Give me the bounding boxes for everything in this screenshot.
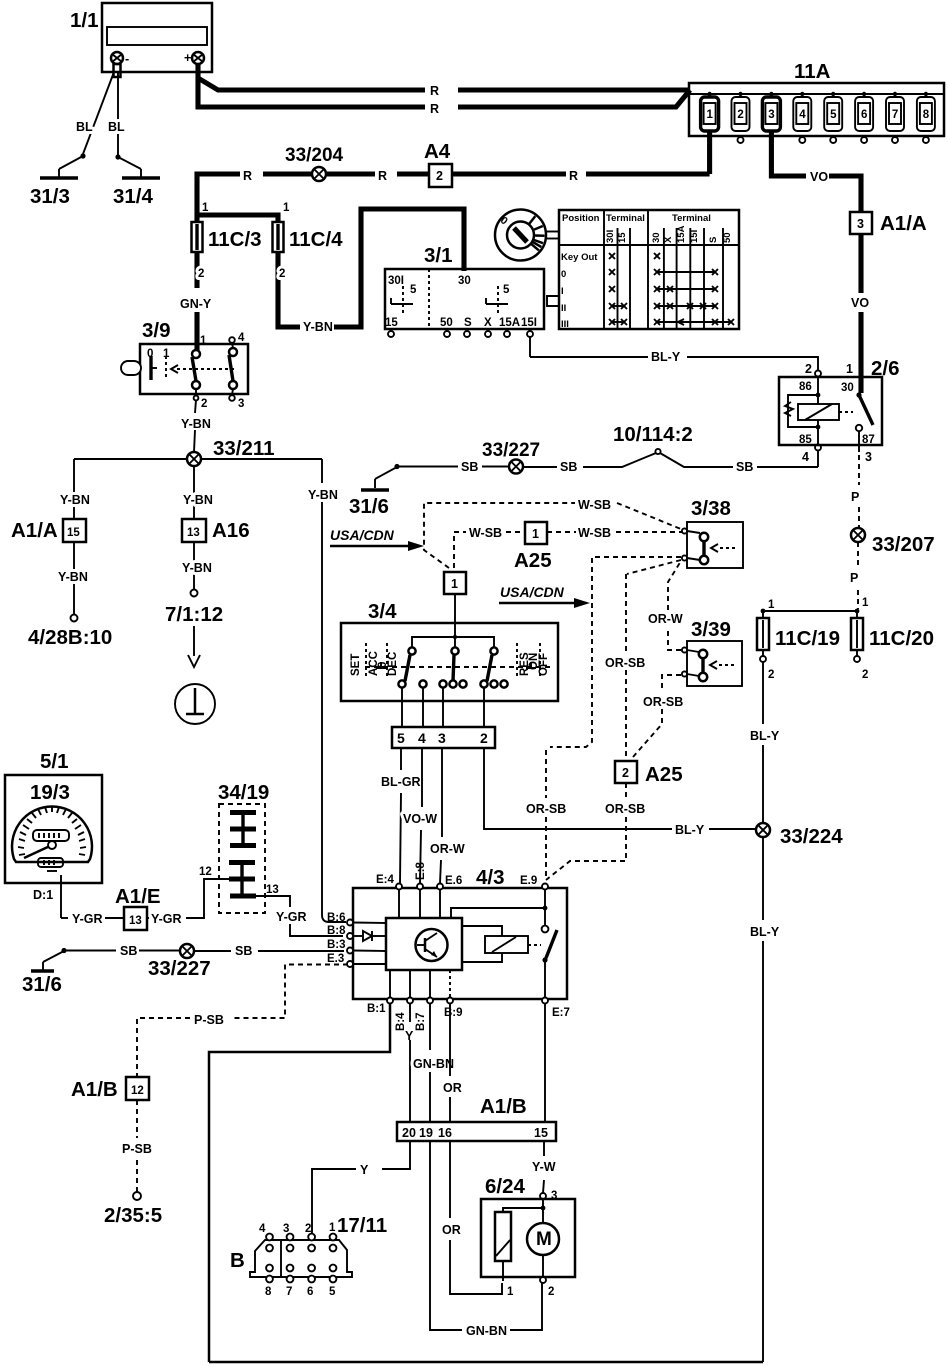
svg-text:33/227: 33/227	[148, 957, 211, 980]
switch 3/38	[682, 497, 743, 568]
wire W-SB dashed row via A25	[454, 526, 525, 568]
pin E:7	[542, 998, 570, 1020]
svg-text:1: 1	[707, 109, 714, 121]
svg-text:3/38: 3/38	[691, 497, 731, 520]
svg-text:31/4: 31/4	[113, 185, 153, 208]
wire BL-Y pin2 to splice 33/224	[484, 748, 756, 837]
svg-text:P-SB: P-SB	[194, 1013, 224, 1027]
wire Y-BN to 7/1:12	[165, 542, 223, 626]
svg-text:3/39: 3/39	[691, 618, 731, 641]
battery 1/1	[70, 3, 212, 72]
svg-text:31/6: 31/6	[22, 973, 62, 996]
svg-text:W-SB: W-SB	[578, 526, 611, 540]
svg-text:OR-SB: OR-SB	[605, 656, 645, 670]
svg-text:Y-BN: Y-BN	[181, 417, 211, 431]
fuse 4	[793, 92, 811, 143]
fuse 2	[732, 92, 750, 143]
svg-text:15: 15	[534, 1126, 548, 1140]
svg-text:BL-Y: BL-Y	[750, 925, 780, 939]
svg-text:5: 5	[410, 284, 417, 296]
svg-text:Y-BN: Y-BN	[60, 493, 90, 507]
svg-text:VO-W: VO-W	[403, 812, 437, 826]
svg-text:2: 2	[768, 669, 774, 681]
control unit 4/3	[353, 866, 567, 999]
svg-text:I: I	[561, 286, 564, 297]
connector A16 pin 13	[182, 519, 250, 542]
wire dashed OR-SB 3/39 lower to A25 2	[633, 675, 683, 757]
svg-text:2: 2	[201, 398, 207, 410]
fuse box 11A	[689, 60, 944, 136]
switch 3/39	[682, 618, 742, 686]
svg-text:4: 4	[802, 450, 809, 464]
svg-text:B:6: B:6	[327, 912, 346, 924]
wire P dashed splice to 11C/20	[850, 542, 858, 609]
fuse 7	[886, 92, 904, 143]
svg-text:4/3: 4/3	[476, 866, 505, 889]
label USA/CDN arrow 2	[499, 584, 590, 608]
svg-text:3/4: 3/4	[368, 600, 397, 623]
ignition position table	[559, 210, 739, 330]
clock ground symbol below 7/1:12	[175, 626, 215, 724]
pin D:1	[33, 875, 61, 918]
svg-text:Y-BN: Y-BN	[303, 320, 333, 334]
bottom rail wire	[209, 1361, 763, 1364]
wire VO A1/A to relay 30	[851, 234, 869, 393]
wire P-SB dashed to 2/35:5	[104, 1100, 162, 1227]
splice 33/224	[756, 823, 843, 848]
svg-text:86: 86	[799, 381, 812, 393]
svg-text:2: 2	[548, 1286, 554, 1298]
svg-text:Y-GR: Y-GR	[151, 912, 182, 926]
label USA/CDN arrow 1	[330, 527, 424, 551]
svg-text:6/24: 6/24	[485, 1175, 525, 1198]
svg-text:1: 1	[202, 202, 209, 214]
connector A1/A pin 15	[11, 519, 86, 542]
pin B:4	[395, 998, 413, 1032]
svg-text:15: 15	[385, 317, 398, 329]
pin E:9	[520, 875, 548, 890]
wire GN-BN B:7 to A1/B 19	[413, 1003, 454, 1122]
svg-text:15: 15	[617, 232, 628, 243]
svg-text:OR-SB: OR-SB	[526, 802, 566, 816]
svg-text:7/1:12: 7/1:12	[165, 603, 223, 626]
connector 5 4 3 2 below 3/4	[392, 688, 495, 748]
svg-text:13: 13	[266, 884, 279, 896]
svg-text:11C/3: 11C/3	[208, 228, 262, 251]
svg-text:4: 4	[238, 332, 245, 344]
svg-text:12: 12	[199, 866, 212, 878]
svg-text:SB: SB	[235, 944, 252, 958]
servo motor 6/24	[481, 1175, 575, 1298]
svg-text:R: R	[569, 169, 578, 183]
svg-text:1: 1	[862, 597, 869, 609]
svg-text:33/207: 33/207	[872, 533, 935, 556]
wire VO fuse 3 to A1/A	[771, 131, 861, 212]
svg-text:A1/E: A1/E	[115, 885, 161, 908]
wire W-SB dashed A25 to 3/38	[547, 526, 682, 540]
svg-text:2: 2	[279, 268, 285, 280]
svg-text:VO: VO	[851, 296, 869, 310]
svg-text:8: 8	[923, 109, 930, 121]
ignition switch 3/1	[385, 244, 544, 337]
svg-text:6: 6	[307, 1286, 313, 1298]
svg-text:87: 87	[862, 434, 875, 446]
svg-text:E.9: E.9	[520, 875, 537, 887]
svg-text:34/19: 34/19	[218, 781, 269, 804]
svg-text:USA/CDN: USA/CDN	[330, 527, 395, 543]
svg-text:Y-BN: Y-BN	[182, 561, 212, 575]
svg-text:30: 30	[458, 275, 471, 287]
svg-text:2: 2	[198, 268, 204, 280]
ground 31/3	[30, 156, 83, 208]
wire branch to 11C/4	[197, 212, 281, 222]
ground 31/6 upper	[349, 467, 397, 518]
fuse 3	[762, 92, 780, 131]
svg-text:4: 4	[799, 109, 806, 121]
svg-text:11A: 11A	[794, 60, 831, 83]
wire dashed 3/38 lower to E:9 via left run	[526, 557, 681, 878]
svg-text:E:8: E:8	[415, 862, 427, 881]
fuse 1	[701, 92, 719, 131]
svg-text:W-SB: W-SB	[578, 498, 611, 512]
svg-text:SB: SB	[120, 944, 137, 958]
wire dashed 3/38 lower to A25 2	[605, 560, 681, 758]
svg-text:Y-GR: Y-GR	[276, 910, 307, 924]
4/3 internals	[353, 889, 557, 999]
splice 33/211	[187, 437, 275, 466]
svg-text:1: 1	[846, 362, 853, 376]
svg-text:Terminal: Terminal	[672, 213, 711, 224]
svg-text:5: 5	[830, 109, 837, 121]
svg-text:A1/B: A1/B	[71, 1078, 118, 1101]
pin B:1	[367, 998, 393, 1016]
wire Y A1/B 20 to 17/11 pin 2	[312, 1141, 410, 1233]
svg-text:30I: 30I	[605, 230, 616, 243]
svg-text:SB: SB	[736, 460, 753, 474]
wire dashed OR-W 3/39 upper to 3/38 lower	[648, 561, 683, 650]
wire P-SB dashed A1/B 12 to E:3	[137, 965, 348, 1078]
connector A1/E pin 13	[115, 885, 161, 930]
svg-text:1: 1	[768, 599, 775, 611]
svg-text:50: 50	[440, 317, 453, 329]
svg-text:OR-SB: OR-SB	[605, 802, 645, 816]
svg-text:7: 7	[286, 1286, 292, 1298]
ignition key symbol	[495, 210, 559, 261]
pin E:8	[415, 862, 427, 890]
ignition table stub	[547, 296, 559, 306]
svg-text:VO: VO	[810, 170, 828, 184]
svg-text:Y-GR: Y-GR	[72, 912, 103, 926]
fuse 11C/3	[192, 202, 262, 252]
svg-text:Y-W: Y-W	[532, 1160, 556, 1174]
svg-text:1: 1	[532, 527, 539, 541]
svg-text:OR-W: OR-W	[430, 842, 465, 856]
svg-text:2: 2	[436, 169, 443, 183]
wire Y-W A1/B 15 to servo pin 3	[532, 1141, 557, 1202]
splice 33/227 lower	[148, 944, 211, 980]
svg-text:Y-BN: Y-BN	[308, 488, 338, 502]
svg-text:15: 15	[67, 527, 80, 539]
svg-text:Position: Position	[562, 213, 600, 224]
svg-text:3: 3	[857, 217, 864, 231]
svg-text:1/1: 1/1	[70, 9, 99, 32]
svg-text:R: R	[243, 169, 252, 183]
wire R from fuse 1	[452, 131, 710, 183]
svg-text:4: 4	[418, 730, 426, 746]
wire BL-Y ignition 15I to relay	[530, 337, 818, 370]
svg-text:B: B	[230, 1249, 245, 1272]
wire Y-BN right branch down to B:6	[308, 459, 346, 922]
svg-text:B:9: B:9	[444, 1007, 463, 1019]
svg-text:1: 1	[451, 577, 458, 591]
svg-text:33/224: 33/224	[780, 825, 843, 848]
wire Y-BN distribution line	[74, 458, 322, 460]
wire OR B:9 to A1/B 16	[443, 1003, 462, 1122]
wire Y-W E:7 to A1/B 15	[544, 1003, 546, 1122]
wire SB splice to B:3	[194, 944, 344, 958]
wire VO-W pin4 to E:8	[403, 748, 437, 883]
svg-text:Y-BN: Y-BN	[183, 493, 213, 507]
svg-text:DEC: DEC	[387, 652, 399, 676]
wire SB splice to ground 31/6	[394, 460, 509, 474]
wire BL negative leads	[76, 72, 125, 160]
svg-text:R: R	[430, 102, 439, 116]
wire W-SB dashed upper row	[424, 498, 681, 568]
battery negative terminal	[111, 52, 129, 77]
svg-text:12: 12	[131, 1085, 144, 1097]
svg-text:S: S	[708, 237, 719, 243]
wire P dashed relay 87 to fuses	[851, 455, 859, 527]
svg-text:A1/B: A1/B	[480, 1095, 527, 1118]
svg-text:13: 13	[129, 915, 142, 927]
svg-text:A25: A25	[645, 763, 683, 786]
svg-text:3/1: 3/1	[424, 244, 453, 267]
svg-text:A4: A4	[424, 140, 451, 163]
svg-text:19: 19	[419, 1126, 433, 1140]
fuse 11C/20	[851, 611, 934, 681]
svg-text:E.3: E.3	[327, 953, 344, 965]
svg-text:SB: SB	[461, 460, 478, 474]
wire BL-GR pin5 to E:4	[381, 748, 421, 883]
wire BL-Y 11C/19 down right side	[750, 662, 780, 1362]
svg-text:GN-Y: GN-Y	[180, 297, 212, 311]
svg-text:BL-GR: BL-GR	[381, 775, 421, 789]
connector A1/A pin 3	[850, 212, 927, 235]
ground 31/4	[113, 157, 160, 208]
wire Y-GR 34/19 pin 13 to B:8	[256, 884, 343, 936]
svg-text:P: P	[851, 490, 859, 504]
svg-text:15A: 15A	[499, 317, 520, 329]
wire Y-BN to A1/A 15	[60, 459, 90, 519]
svg-text:3: 3	[865, 450, 872, 464]
svg-text:Y: Y	[360, 1163, 369, 1177]
pin E:3	[327, 953, 353, 967]
svg-text:BL: BL	[108, 120, 125, 134]
wire link 11C/19 and 11C/20 pins 1	[761, 597, 869, 613]
connector A4 pin 2	[424, 140, 452, 187]
svg-text:E:4: E:4	[376, 874, 395, 886]
pin B:7	[415, 998, 433, 1032]
svg-text:GN-BN: GN-BN	[466, 1324, 507, 1338]
svg-text:8: 8	[265, 1286, 272, 1298]
pin E:6	[437, 875, 462, 890]
pin B:6	[327, 912, 353, 926]
svg-text:E.6: E.6	[445, 875, 462, 887]
svg-text:W-SB: W-SB	[469, 526, 502, 540]
svg-text:E:7: E:7	[552, 1007, 570, 1019]
wire SB ground to splice 33/227	[64, 944, 180, 958]
wire OR-W pin3 to E:6	[430, 748, 465, 883]
svg-text:6: 6	[861, 109, 867, 121]
svg-text:S: S	[464, 317, 472, 329]
wire Y-BN 3/9 to splice	[181, 400, 211, 452]
svg-text:Key Out: Key Out	[561, 252, 598, 263]
svg-text:10/114:2: 10/114:2	[613, 423, 693, 446]
wire B:1 return to bottom rail	[209, 1003, 390, 1362]
svg-text:R: R	[378, 169, 387, 183]
brake switch 3/9	[121, 319, 248, 410]
svg-text:OR: OR	[443, 1081, 462, 1095]
connector 17/11	[230, 1214, 387, 1298]
svg-text:BL-Y: BL-Y	[750, 729, 780, 743]
wire Y-BN 11C/4 to ignition 30	[278, 209, 464, 334]
svg-text:BL-Y: BL-Y	[651, 350, 681, 364]
cruise control switch 3/4	[341, 600, 558, 701]
splice 33/207	[851, 528, 935, 556]
connector A25 pin 2	[615, 761, 683, 786]
svg-text:A1/A: A1/A	[880, 212, 927, 235]
svg-text:2: 2	[480, 730, 488, 746]
wire Y-GR to A1/E	[61, 912, 124, 926]
wire R from A4 to splice	[327, 169, 429, 183]
svg-text:31/6: 31/6	[349, 495, 389, 518]
fuse 6	[855, 92, 873, 143]
svg-text:II: II	[561, 303, 566, 314]
connector A1/B pin 12	[71, 1077, 149, 1101]
svg-text:SB: SB	[560, 460, 577, 474]
svg-text:19/3: 19/3	[30, 781, 70, 804]
wire R splice to corner	[197, 169, 312, 215]
instrument cluster 5/1	[5, 750, 102, 883]
fuse 5	[824, 92, 842, 143]
svg-text:A1/A: A1/A	[11, 519, 58, 542]
svg-text:BL: BL	[76, 120, 93, 134]
svg-text:33/204: 33/204	[285, 145, 344, 166]
svg-text:0: 0	[561, 269, 566, 280]
svg-text:85: 85	[799, 434, 812, 446]
svg-text:33/211: 33/211	[213, 437, 275, 460]
pin E:4	[376, 874, 402, 890]
svg-text:A25: A25	[514, 549, 552, 572]
svg-text:Terminal: Terminal	[606, 213, 645, 224]
svg-text:1: 1	[200, 335, 207, 347]
connector A25 pin 1	[514, 522, 552, 572]
svg-text:4/28B:10: 4/28B:10	[28, 626, 112, 649]
svg-text:P: P	[850, 571, 858, 585]
fuse 8	[917, 92, 935, 143]
svg-text:4: 4	[259, 1223, 266, 1235]
ignition table marks	[609, 253, 734, 325]
svg-text:R: R	[430, 84, 439, 98]
svg-text:16: 16	[438, 1126, 452, 1140]
splice 33/227 upper	[482, 440, 540, 474]
svg-text:3: 3	[238, 398, 244, 410]
wire Y B:4 to A1/B 20	[405, 1003, 414, 1122]
svg-text:B:3: B:3	[327, 939, 346, 951]
svg-text:13: 13	[187, 527, 200, 539]
svg-text:III: III	[561, 319, 569, 330]
svg-text:-: -	[125, 52, 129, 66]
svg-text:Y-BN: Y-BN	[58, 570, 88, 584]
svg-text:11C/20: 11C/20	[869, 627, 934, 650]
svg-text:17/11: 17/11	[337, 1214, 387, 1237]
svg-text:B:1: B:1	[367, 1003, 386, 1015]
svg-text:31/3: 31/3	[30, 185, 70, 208]
svg-text:+: +	[184, 51, 191, 65]
svg-text:15I: 15I	[521, 317, 537, 329]
wire Y-BN to 4/28B:10	[28, 542, 112, 649]
svg-text:2: 2	[737, 109, 743, 121]
svg-text:OR-W: OR-W	[648, 612, 683, 626]
svg-text:USA/CDN: USA/CDN	[500, 584, 565, 600]
svg-text:5: 5	[329, 1286, 336, 1298]
connector strip A1/B	[397, 1095, 556, 1141]
ground 31/6 lower	[22, 948, 67, 996]
wire GN-Y 11C/3 to 3/9	[180, 252, 212, 350]
pin B:3	[327, 939, 353, 954]
svg-text:P-SB: P-SB	[122, 1142, 152, 1156]
relay 2/6	[779, 357, 900, 464]
svg-text:3/9: 3/9	[142, 319, 171, 342]
svg-text:5/1: 5/1	[40, 750, 69, 773]
svg-text:15A: 15A	[676, 225, 687, 243]
svg-text:3: 3	[768, 109, 774, 121]
svg-text:30I: 30I	[388, 275, 404, 287]
svg-text:2: 2	[862, 669, 868, 681]
svg-text:BL-Y: BL-Y	[675, 823, 705, 837]
wire Y-GR A1/E to 34/19 pin 12	[147, 866, 230, 926]
svg-text:3: 3	[438, 730, 446, 746]
svg-text:B:8: B:8	[327, 925, 346, 937]
svg-text:GN-BN: GN-BN	[413, 1057, 454, 1071]
svg-text:5: 5	[503, 284, 510, 296]
fuse 11C/19	[757, 611, 840, 681]
speedometer 19/3	[12, 806, 92, 871]
battery positive terminal	[184, 51, 204, 65]
svg-text:7: 7	[892, 109, 898, 121]
svg-text:OR: OR	[442, 1223, 461, 1237]
wire battery positive feed R (double)	[198, 64, 690, 116]
pin B:8	[327, 925, 353, 939]
pin B:9	[444, 998, 463, 1020]
svg-text:1: 1	[283, 202, 290, 214]
svg-text:1: 1	[329, 1222, 336, 1234]
wire Y-BN to A16 13	[193, 466, 195, 519]
svg-text:30: 30	[651, 232, 662, 243]
wire SB relay 85 to grounds	[524, 449, 818, 474]
svg-text:D:1: D:1	[33, 888, 53, 902]
svg-text:2/35:5: 2/35:5	[104, 1204, 162, 1227]
svg-text:2: 2	[622, 766, 629, 780]
splice 33/204	[285, 145, 344, 181]
svg-text:2: 2	[805, 362, 812, 376]
svg-text:5: 5	[397, 730, 405, 746]
connector 1 above 3/4	[444, 572, 466, 637]
svg-text:33/227: 33/227	[482, 440, 540, 461]
wire GN-BN A1/B 19 to servo pin 2	[430, 1141, 542, 1338]
svg-text:20: 20	[402, 1126, 416, 1140]
svg-text:SET: SET	[350, 654, 362, 676]
